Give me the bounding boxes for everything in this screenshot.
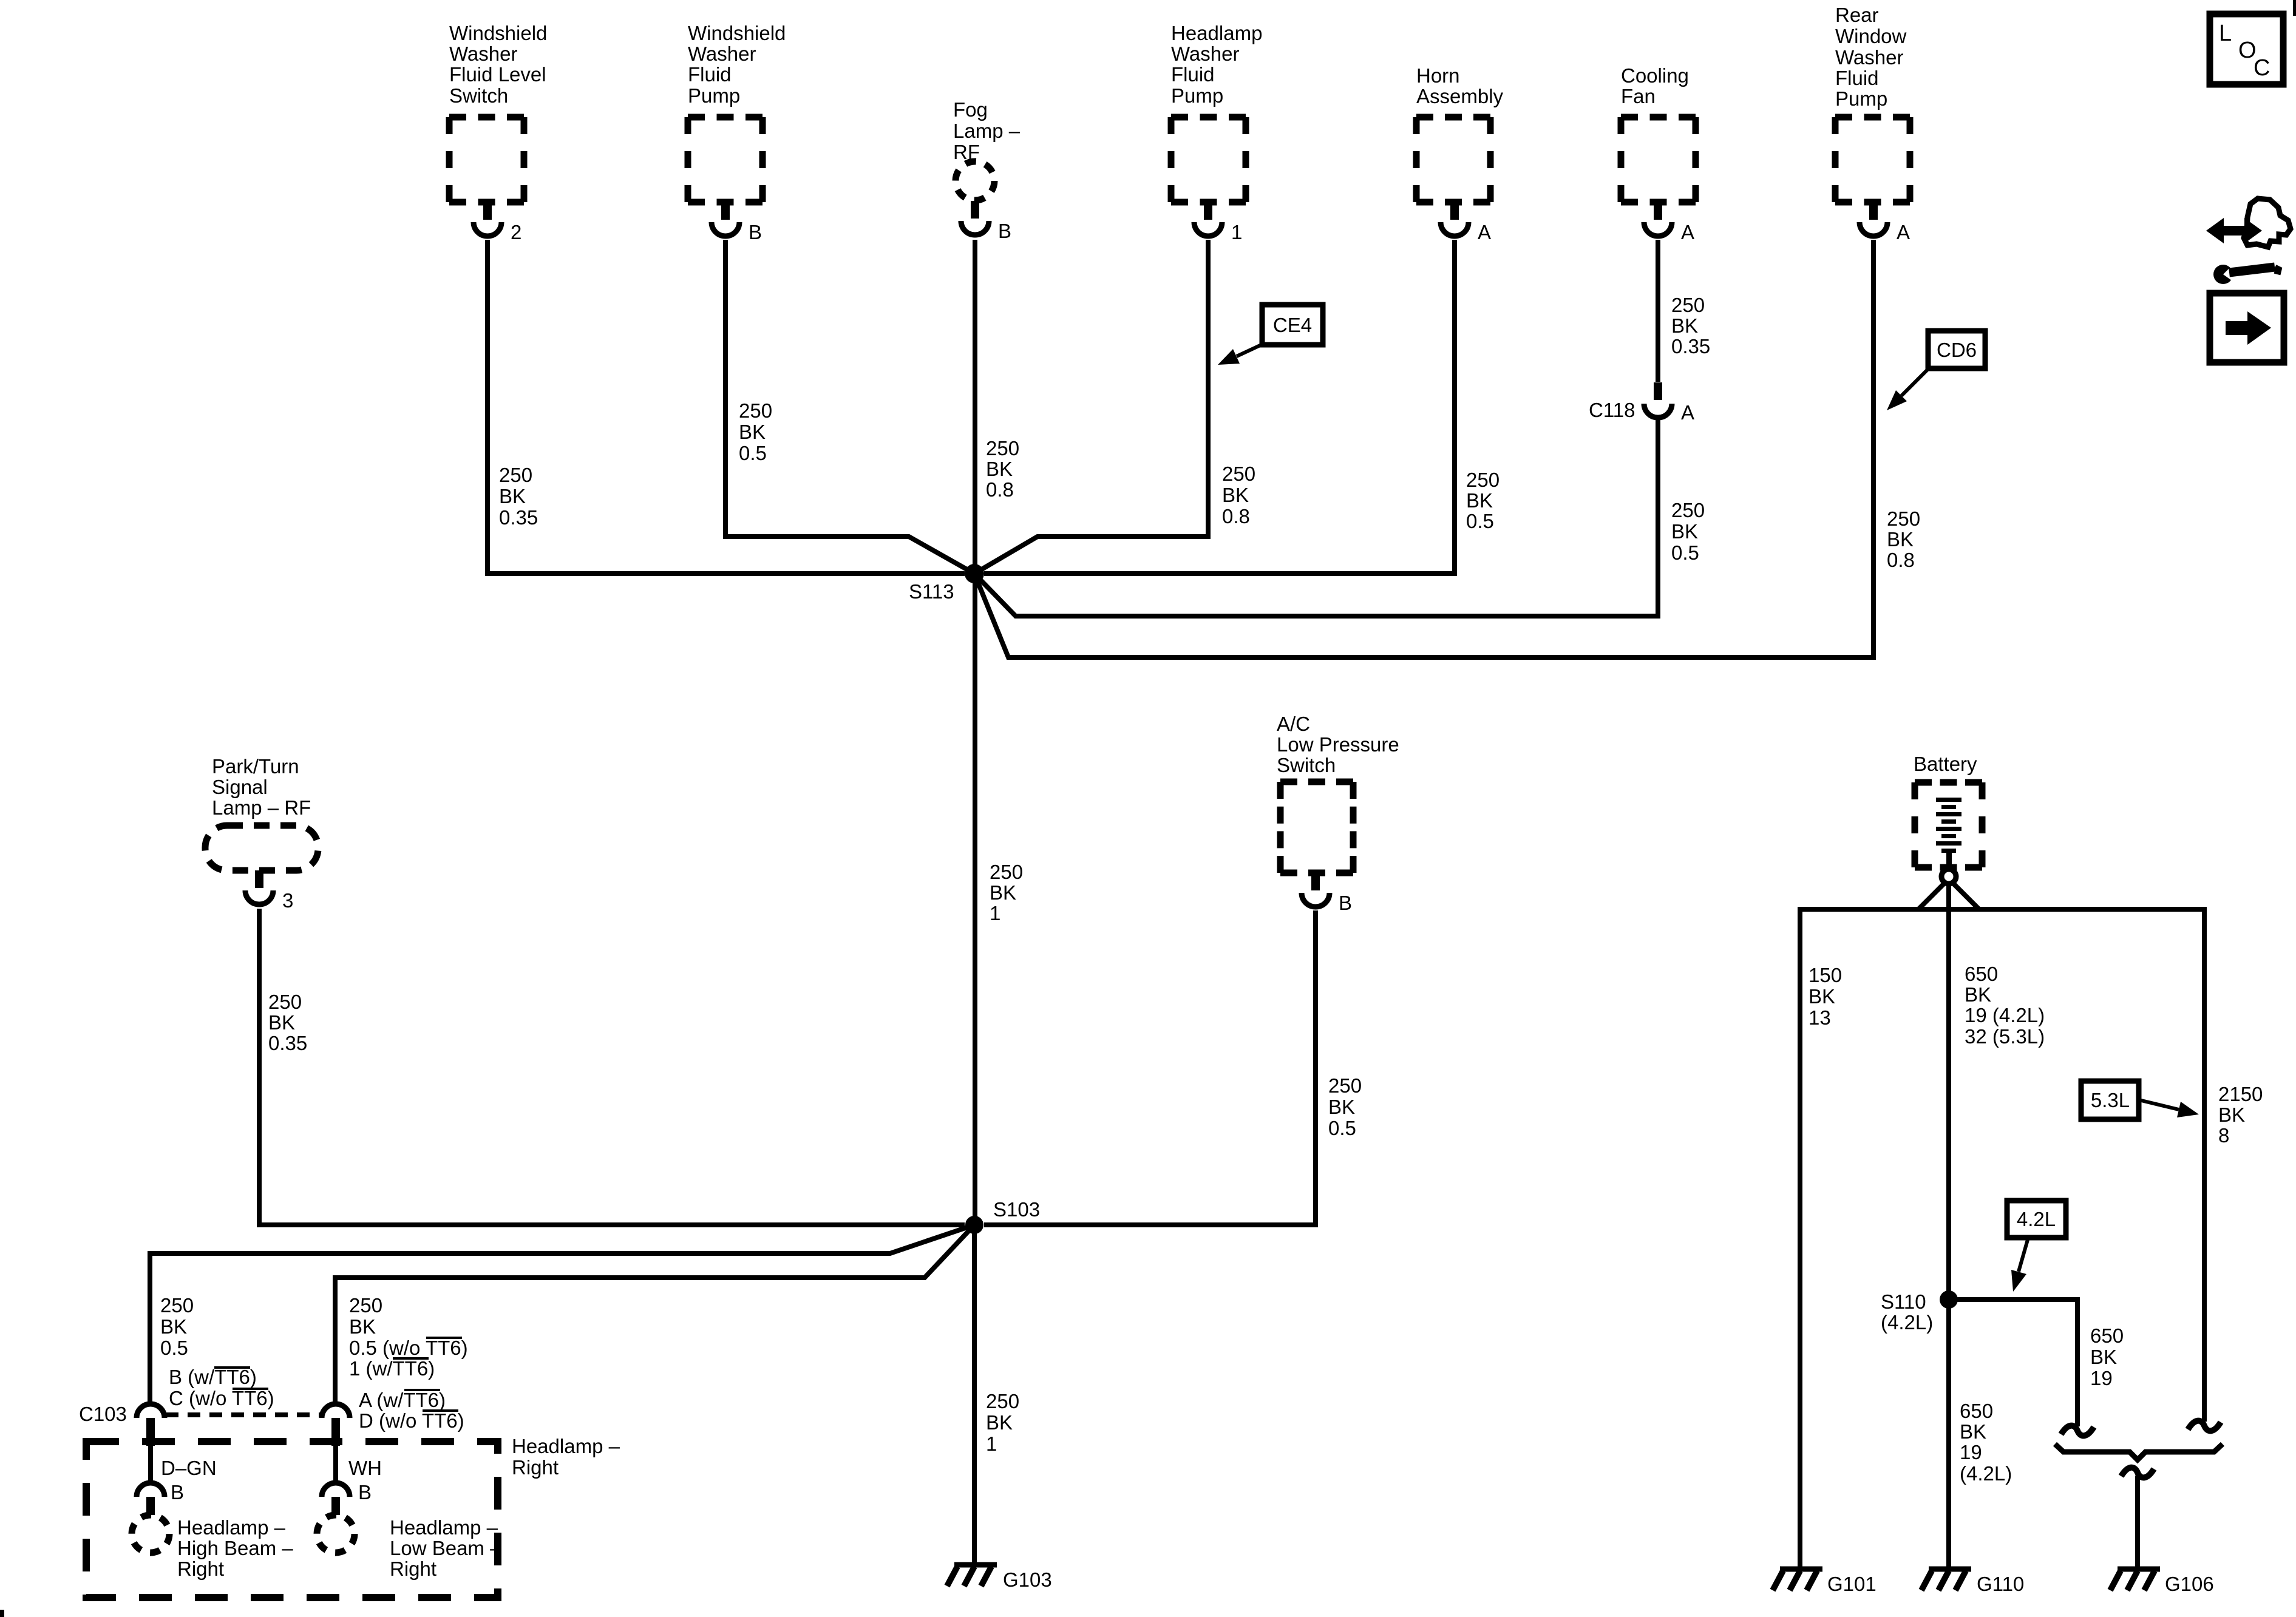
svg-text:Pump: Pump (688, 84, 740, 107)
wire: rear window washer 250 BK 0.8 to S113 (974, 240, 1873, 657)
wire: battery ground bus (G101 / 2150 BK 8 branches) (1800, 909, 2204, 1569)
wire: brace to G106 (2135, 1476, 2140, 1569)
pin B connector (WW fluid pump) (712, 202, 762, 243)
svg-text:1 (w/TT6): 1 (w/TT6) (349, 1357, 435, 1380)
wire label 250 BK 0.35 (park/turn lamp) (268, 991, 307, 1054)
svg-text:250: 250 (160, 1294, 194, 1317)
svg-text:Lamp –: Lamp – (953, 120, 1021, 142)
svg-text:Right: Right (390, 1558, 436, 1580)
wire: horn assembly 250 BK 0.5 to S113 (984, 240, 1455, 574)
svg-text:BK: BK (499, 485, 526, 507)
stub to high beam lamp (146, 1497, 155, 1515)
svg-text:8: 8 (2218, 1124, 2229, 1147)
svg-text:Washer: Washer (449, 42, 517, 65)
wire label 250 BK 0.35 (fluid level switch) (499, 464, 538, 529)
svg-text:G101: G101 (1827, 1573, 1877, 1595)
arrow from CD6 to wire (1901, 368, 1929, 396)
svg-text:250: 250 (268, 991, 302, 1013)
wire label 650 BK 19 (4.2L) (1960, 1400, 2012, 1485)
svg-text:Horn: Horn (1416, 64, 1460, 87)
wire: headlamp washer pump 250 BK 0.8 to S113 (974, 240, 1208, 574)
svg-text:Fluid: Fluid (1171, 63, 1215, 86)
svg-text:Windshield: Windshield (688, 22, 786, 44)
arrow from 5.3L to wire (2139, 1100, 2179, 1110)
wire label 650 BK 19 (S110 branch) (2090, 1324, 2124, 1389)
svg-text:BK: BK (2218, 1103, 2245, 1126)
svg-text:BK: BK (1328, 1096, 1355, 1118)
svg-text:C103: C103 (79, 1403, 127, 1425)
svg-text:1: 1 (990, 902, 1000, 924)
component box: Windshield Washer Fluid Pump (688, 117, 763, 202)
svg-text:WH: WH (348, 1457, 382, 1479)
svg-text:BK: BK (1671, 314, 1698, 337)
svg-text:D–GN: D–GN (161, 1457, 217, 1479)
svg-text:Right: Right (177, 1558, 224, 1580)
wire label 250 BK 0.5/1 (low beam circuit) (349, 1294, 468, 1380)
svg-text:S110: S110 (1881, 1290, 1926, 1313)
svg-text:G110: G110 (1977, 1573, 2024, 1595)
lamp circle: Headlamp Low Beam Right (317, 1515, 355, 1553)
svg-text:250: 250 (990, 861, 1023, 883)
svg-text:G103: G103 (1003, 1568, 1052, 1591)
icon: LOC box (2210, 14, 2283, 84)
wire label 250 BK 0.5 (A/C switch) (1328, 1074, 1362, 1139)
svg-text:250: 250 (986, 1390, 1019, 1412)
svg-text:5.3L: 5.3L (2091, 1089, 2130, 1111)
svg-text:BK: BK (986, 458, 1013, 480)
callout box CD6 (1928, 331, 1985, 368)
callout box 5.3L (2081, 1081, 2139, 1119)
wire: park/turn lamp 250 BK 0.35 to S103 (259, 909, 965, 1225)
wire: battery node to right bus (1952, 883, 1979, 909)
component box: Windshield Washer Fluid Level Switch (449, 117, 524, 202)
svg-text:19: 19 (2090, 1367, 2113, 1389)
connector arc C103 left (high beam wire) (137, 1404, 165, 1418)
svg-text:19 (4.2L): 19 (4.2L) (1965, 1004, 2045, 1026)
arrow from CE4 to wire (1237, 344, 1264, 356)
svg-text:G106: G106 (2165, 1573, 2214, 1595)
wire: A/C low pressure switch 250 BK 0.5 to S103 (984, 910, 1316, 1225)
wire: fog lamp 250 BK 0.8 through S113 to S103 (973, 240, 977, 1225)
label: Windshield Washer Fluid Level Switch (449, 22, 547, 107)
svg-text:250: 250 (1222, 463, 1255, 485)
svg-text:A: A (1681, 401, 1694, 424)
svg-text:BK: BK (1671, 520, 1698, 543)
svg-text:BK: BK (1222, 484, 1249, 506)
svg-text:C (w/o TT6): C (w/o TT6) (169, 1387, 274, 1409)
svg-text:Window: Window (1835, 25, 1907, 47)
brace joining wires to G106 (2055, 1444, 2223, 1460)
wire: cooling fan 250 BK 0.35 to C118 (1656, 240, 1660, 382)
svg-text:Assembly: Assembly (1416, 85, 1504, 107)
arrow from 4.2L to wire (2019, 1238, 2028, 1272)
wire: battery 650 BK to G110 (1946, 883, 1951, 1569)
wire label 250 BK 0.5 (horn) (1466, 469, 1500, 532)
svg-text:BK: BK (739, 421, 766, 443)
icon: vehicle with double arrow and wrench (2206, 198, 2291, 284)
wire: D-GN inside headlamp (148, 1446, 153, 1483)
svg-text:A (w/TT6): A (w/TT6) (359, 1389, 446, 1411)
svg-text:250: 250 (1671, 294, 1705, 316)
svg-text:Switch: Switch (449, 84, 508, 107)
page corner mark top-right (2293, 0, 2296, 16)
pin label A/D at C103 (359, 1389, 464, 1432)
battery cell symbol (1936, 798, 1961, 870)
wire label 250 BK 0.8 (headlamp washer pump) (1222, 463, 1255, 527)
svg-text:Fluid: Fluid (688, 63, 732, 86)
svg-text:1: 1 (986, 1432, 997, 1455)
svg-text:250: 250 (739, 399, 772, 422)
stub through C103 left (146, 1418, 155, 1446)
svg-text:High Beam –: High Beam – (177, 1537, 293, 1559)
connector arc B (high beam lamp) (137, 1483, 165, 1497)
wire label 250 BK 1 (S103 to G103) (986, 1390, 1019, 1455)
svg-text:3: 3 (282, 889, 293, 912)
svg-text:B: B (998, 220, 1011, 242)
svg-text:Fluid Level: Fluid Level (449, 63, 546, 86)
svg-text:0.35: 0.35 (1671, 335, 1710, 358)
label: Headlamp - Right (512, 1435, 620, 1479)
svg-text:BK: BK (1965, 983, 1991, 1006)
svg-text:0.35: 0.35 (499, 506, 538, 529)
svg-text:19: 19 (1960, 1441, 1982, 1463)
svg-text:0.5: 0.5 (160, 1337, 188, 1359)
svg-text:Signal: Signal (212, 776, 268, 798)
svg-text:Rear: Rear (1835, 4, 1879, 26)
svg-text:Low Pressure: Low Pressure (1277, 733, 1399, 756)
component box: Horn Assembly (1416, 117, 1490, 202)
svg-text:CE4: CE4 (1273, 314, 1312, 336)
svg-text:Headlamp –: Headlamp – (390, 1516, 498, 1539)
label: Park/Turn Signal Lamp - RF (212, 755, 311, 819)
svg-text:1: 1 (1231, 221, 1242, 243)
connector line C103 (dashed) (166, 1412, 321, 1417)
svg-text:BK: BK (986, 1411, 1013, 1434)
svg-text:CD6: CD6 (1937, 339, 1977, 361)
svg-text:Battery: Battery (1914, 753, 1977, 775)
connector arc C103 right (low beam wire) (322, 1404, 350, 1418)
wire label 250 BK 0.8 (fog lamp) (986, 437, 1019, 501)
svg-text:0.5: 0.5 (1671, 541, 1699, 564)
stub through C103 right (331, 1418, 340, 1446)
svg-text:Pump: Pump (1835, 87, 1887, 110)
svg-text:BK: BK (1466, 489, 1493, 512)
continuation squiggle (S110 branch wire end) (2061, 1426, 2094, 1436)
pin label B/C at C103 (169, 1366, 274, 1409)
svg-text:(4.2L): (4.2L) (1881, 1311, 1933, 1334)
svg-text:13: 13 (1809, 1006, 1831, 1029)
wire: cooling fan 250 BK 0.5 from C118 to S113 (974, 419, 1658, 616)
connector arc B (low beam lamp) (322, 1483, 350, 1497)
svg-text:L: L (2219, 21, 2232, 46)
svg-text:650: 650 (1965, 963, 1998, 985)
svg-text:250: 250 (1887, 507, 1920, 530)
svg-text:A: A (1897, 221, 1910, 243)
callout box CE4 (1262, 305, 1323, 345)
pin 3 connector (park/turn lamp) (245, 870, 293, 912)
svg-text:BK: BK (1960, 1420, 1986, 1443)
svg-text:250: 250 (986, 437, 1019, 459)
svg-text:Switch: Switch (1277, 754, 1336, 776)
svg-text:A: A (1478, 221, 1491, 243)
wire label 250 BK 0.8 (rear window washer) (1887, 507, 1920, 571)
pin B connector (fog lamp RF) (961, 201, 1011, 242)
svg-text:Headlamp: Headlamp (1171, 22, 1262, 44)
svg-text:B: B (1339, 892, 1352, 914)
svg-text:C: C (2254, 55, 2270, 81)
component box: Rear Window Washer Fluid Pump (1835, 117, 1910, 202)
component box: Headlamp Washer Fluid Pump (1171, 117, 1246, 202)
ground G101 (1773, 1569, 1822, 1590)
stub to low beam lamp (331, 1497, 340, 1515)
pin B connector (A/C low pressure switch) (1302, 873, 1352, 914)
component box: Battery (1915, 782, 1982, 867)
svg-text:0.35: 0.35 (268, 1032, 307, 1054)
label: Battery (1914, 753, 1977, 775)
connector C118 (1589, 382, 1694, 424)
svg-text:Pump: Pump (1171, 84, 1223, 107)
label: Cooling Fan (1621, 64, 1689, 107)
svg-text:Low Beam –: Low Beam – (390, 1537, 501, 1559)
wire: S103 to G103 250 BK 1 (972, 1225, 977, 1564)
wire label 250 BK 0.5 (washer fluid pump) (739, 399, 772, 464)
label: A/C Low Pressure Switch (1277, 713, 1399, 776)
ground G103 (947, 1565, 997, 1586)
svg-text:250: 250 (499, 464, 532, 486)
pin A connector (rear window washer pump) (1860, 202, 1910, 243)
wire label 150 BK 13 (1809, 964, 1842, 1029)
svg-text:A/C: A/C (1277, 713, 1310, 735)
svg-text:0.5 (w/o TT6): 0.5 (w/o TT6) (349, 1337, 468, 1359)
wire: S103 to headlamp high beam 250 BK 0.5 (150, 1225, 974, 1403)
wire: WW fluid level switch 250 BK 0.35 to S113 (487, 240, 965, 574)
svg-text:Lamp – RF: Lamp – RF (212, 796, 311, 819)
wire label 250 BK 1 (S113 to S103) (990, 861, 1023, 924)
svg-text:0.8: 0.8 (1887, 549, 1915, 571)
splice S103 (965, 1216, 983, 1234)
svg-text:BK: BK (268, 1011, 295, 1034)
svg-text:B (w/TT6): B (w/TT6) (169, 1366, 257, 1388)
component oval: Park/Turn Signal Lamp - RF (205, 825, 318, 870)
svg-text:B: B (749, 221, 762, 243)
svg-text:BK: BK (990, 881, 1016, 904)
splice S113 (965, 564, 984, 583)
component circle: Fog Lamp - RF (956, 161, 994, 200)
lamp circle: Headlamp High Beam Right (132, 1515, 169, 1553)
svg-text:0.8: 0.8 (1222, 505, 1250, 527)
label S110 (4.2L) (1881, 1290, 1933, 1334)
svg-text:0.5: 0.5 (739, 442, 767, 464)
svg-text:Washer: Washer (688, 42, 756, 65)
svg-text:C118: C118 (1589, 399, 1635, 421)
svg-text:250: 250 (1671, 499, 1705, 521)
ground G106 (2110, 1569, 2160, 1590)
svg-text:2150: 2150 (2218, 1083, 2263, 1105)
ground G110 (1921, 1569, 1971, 1590)
component box: Cooling Fan (1621, 117, 1696, 202)
svg-text:Fluid: Fluid (1835, 67, 1879, 89)
pin A connector (cooling fan) (1644, 202, 1694, 243)
pin A connector (horn assembly) (1441, 202, 1491, 243)
svg-text:2: 2 (511, 221, 521, 243)
battery terminal node (open circle) (1941, 869, 1956, 884)
svg-text:32 (5.3L): 32 (5.3L) (1965, 1025, 2045, 1048)
wire label 2150 BK 8 (2218, 1083, 2263, 1147)
svg-text:BK: BK (1809, 985, 1835, 1008)
svg-text:BK: BK (2090, 1346, 2117, 1368)
svg-text:650: 650 (1960, 1400, 1993, 1422)
svg-text:0.5: 0.5 (1328, 1117, 1356, 1139)
svg-text:A: A (1681, 221, 1694, 243)
svg-text:S113: S113 (909, 580, 954, 603)
svg-text:Cooling: Cooling (1621, 64, 1689, 87)
page corner mark bottom-left (0, 1610, 4, 1617)
wire: battery node to left bus (1918, 883, 1945, 909)
label: Headlamp - Low Beam - Right (390, 1516, 501, 1580)
wire: S110 branch 650 BK 19 (1949, 1300, 2077, 1426)
svg-text:Washer: Washer (1835, 46, 1903, 69)
svg-text:0.5: 0.5 (1466, 510, 1494, 532)
wire label 250 BK 0.5 (below C118) (1671, 499, 1705, 564)
continuation squiggle (G106 wire top) (2121, 1468, 2154, 1478)
pin 2 connector (WW fluid level switch) (474, 202, 521, 243)
svg-text:Park/Turn: Park/Turn (212, 755, 299, 778)
svg-text:Headlamp –: Headlamp – (512, 1435, 620, 1457)
wire: WH inside headlamp (333, 1446, 338, 1483)
svg-text:BK: BK (160, 1315, 187, 1338)
wire label 250 BK 0.35 (cooling fan) (1671, 294, 1710, 358)
continuation squiggle (2150 BK 8 wire end) (2188, 1421, 2221, 1431)
svg-text:Windshield: Windshield (449, 22, 547, 44)
pin 1 connector (headlamp washer pump) (1194, 202, 1242, 243)
svg-text:0.8: 0.8 (986, 478, 1014, 501)
svg-text:Headlamp –: Headlamp – (177, 1516, 286, 1539)
label: Headlamp - High Beam - Right (177, 1516, 293, 1580)
svg-text:Fog: Fog (953, 98, 988, 121)
wire label 650 BK 19/32 (1965, 963, 2045, 1048)
wire: WW fluid pump 250 BK 0.5 to S113 (725, 240, 974, 574)
label: Rear Window Washer Fluid Pump (1835, 4, 1907, 110)
svg-text:B: B (358, 1481, 372, 1503)
icon: arrow box (2210, 293, 2284, 362)
label: Horn Assembly (1416, 64, 1504, 107)
component box: A/C Low Pressure Switch (1280, 782, 1353, 873)
svg-text:250: 250 (349, 1294, 382, 1317)
svg-text:Right: Right (512, 1456, 559, 1479)
callout box 4.2L (2007, 1201, 2066, 1238)
svg-text:Washer: Washer (1171, 42, 1239, 65)
component box: Headlamp - Right (dashed) (86, 1442, 498, 1598)
svg-text:BK: BK (349, 1315, 376, 1338)
wire: S103 to headlamp low beam 250 BK (335, 1225, 974, 1403)
svg-text:S103: S103 (993, 1198, 1040, 1221)
svg-text:(4.2L): (4.2L) (1960, 1462, 2012, 1485)
svg-text:Fan: Fan (1621, 85, 1656, 107)
svg-text:650: 650 (2090, 1324, 2124, 1347)
label: Fog Lamp - RF (953, 98, 1021, 163)
wire label 250 BK 0.5 (high beam circuit) (160, 1294, 194, 1359)
svg-text:250: 250 (1466, 469, 1500, 491)
svg-text:250: 250 (1328, 1074, 1362, 1097)
svg-text:B: B (171, 1481, 184, 1503)
label: Headlamp Washer Fluid Pump (1171, 22, 1262, 107)
label: Windshield Washer Fluid Pump (688, 22, 786, 107)
svg-text:D (w/o TT6): D (w/o TT6) (359, 1409, 464, 1432)
svg-text:4.2L: 4.2L (2017, 1208, 2056, 1230)
svg-text:150: 150 (1809, 964, 1842, 986)
splice S110 (1940, 1290, 1958, 1309)
svg-text:BK: BK (1887, 528, 1914, 551)
